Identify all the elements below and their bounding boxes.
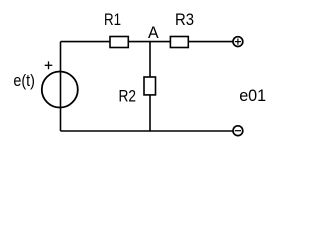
terminal - (output negative) [233,126,243,136]
voltage source e(t) [42,61,78,107]
svg-text:R3: R3 [175,10,194,29]
wire top horizontal from source to + terminal [61,41,234,43]
wire left vertical through source [60,42,62,131]
svg-text:R1: R1 [104,10,121,29]
resistor R3 [170,37,188,48]
svg-text:e01: e01 [239,86,266,105]
resistor R1 [110,37,128,48]
svg-text:R2: R2 [119,86,137,105]
svg-text:e(t): e(t) [13,71,35,90]
resistor R2 [144,77,156,95]
wire middle vertical from node A through R2 [149,42,151,131]
svg-text:A: A [148,23,159,42]
wire bottom horizontal from source to - terminal [61,130,234,132]
terminal + (output positive) [233,37,243,47]
